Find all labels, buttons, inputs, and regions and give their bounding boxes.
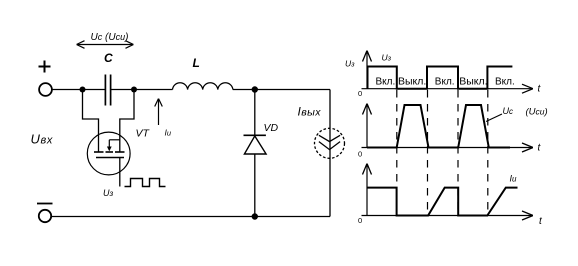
svg-text:0: 0 bbox=[358, 216, 362, 225]
svg-text:VT: VT bbox=[136, 128, 151, 140]
node B junction dot bbox=[131, 87, 137, 93]
wire top rail capacitor to inductor bbox=[111, 89, 173, 91]
current source Iвых bbox=[315, 128, 345, 158]
svg-text:Выкл.: Выкл. bbox=[459, 76, 487, 88]
wire gate lead bbox=[119, 158, 121, 187]
wire drain branch from node A bbox=[83, 90, 99, 152]
gate drive square wave bbox=[125, 179, 166, 187]
svg-text:Uвх: Uвх bbox=[31, 132, 53, 147]
svg-text:Вкл.: Вкл. bbox=[435, 77, 455, 88]
annotation double arrow Uc (Ucи) bbox=[77, 44, 134, 46]
diode VD bbox=[244, 90, 267, 217]
inductor L bbox=[173, 83, 233, 90]
diagram 3: Iи(t) bbox=[358, 164, 543, 228]
capacitor C bbox=[105, 75, 110, 106]
svg-text:L: L bbox=[193, 56, 200, 70]
timing dashed line t4 bbox=[487, 90, 489, 211]
wire bottom rail bbox=[51, 216, 330, 218]
axis Y d1 bbox=[366, 51, 368, 89]
svg-text:Uз: Uз bbox=[382, 53, 392, 63]
svg-text:Выкл.: Выкл. bbox=[398, 76, 426, 88]
leader line Uc label bbox=[486, 114, 502, 122]
svg-text:Iи: Iи bbox=[165, 128, 172, 138]
node C junction dot bbox=[252, 86, 258, 92]
transistor VT bbox=[87, 132, 130, 175]
wire top rail left bbox=[52, 89, 106, 91]
svg-text:Uз: Uз bbox=[103, 188, 114, 198]
svg-text:C: C bbox=[104, 51, 113, 65]
svg-text:Uс: Uс bbox=[503, 106, 514, 116]
node D junction dot bbox=[252, 213, 258, 219]
svg-text:Uс (Uси): Uс (Uси) bbox=[91, 32, 129, 43]
wire right branch vertical bbox=[329, 90, 331, 217]
arrow Iи current bbox=[158, 99, 160, 126]
timing dashed line t2 bbox=[427, 90, 429, 211]
svg-text:VD: VD bbox=[264, 122, 279, 134]
axis Y d3 bbox=[366, 164, 368, 216]
axis Y d2 bbox=[366, 104, 368, 148]
axis X d1 bbox=[362, 88, 534, 90]
node A junction dot bbox=[80, 87, 86, 93]
waveform Uc trapezoids bbox=[367, 105, 510, 148]
input terminal - bbox=[39, 210, 51, 222]
svg-text:Вкл.: Вкл. bbox=[376, 77, 396, 88]
diagram 2: Uc (Ucи) bbox=[358, 104, 548, 159]
minus sign bbox=[37, 203, 53, 205]
svg-text:Вкл.: Вкл. bbox=[495, 77, 515, 88]
svg-text:Iвых: Iвых bbox=[298, 105, 322, 119]
input terminal + bbox=[39, 83, 52, 96]
svg-text:0: 0 bbox=[358, 150, 362, 159]
svg-text:0: 0 bbox=[358, 89, 362, 98]
waveform Uз square wave bbox=[368, 67, 513, 89]
diagram 1: Uз(t) bbox=[345, 51, 542, 99]
wire top rail inductor to right corner bbox=[233, 89, 330, 91]
svg-text:(Uси): (Uси) bbox=[526, 107, 548, 118]
axis X d2 bbox=[362, 147, 534, 149]
timing dashed line t1 bbox=[396, 90, 398, 211]
timing dashed line t3 bbox=[457, 90, 459, 211]
waveform Iи bbox=[367, 188, 518, 216]
axis X d3 bbox=[362, 215, 534, 217]
wire source branch from node B bbox=[120, 90, 134, 152]
svg-text:Iи: Iи bbox=[510, 174, 518, 184]
svg-text:Uз: Uз bbox=[345, 59, 355, 69]
plus sign bbox=[39, 61, 51, 73]
